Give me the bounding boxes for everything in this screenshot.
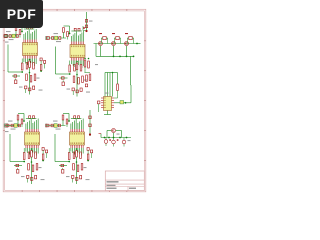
wire U5 right link xyxy=(114,102,120,104)
wire mid horizontal xyxy=(60,77,68,79)
text U5 label xyxy=(105,93,109,94)
wire right column 2 xyxy=(46,153,48,158)
diode D15 connector column xyxy=(89,116,91,119)
junction below pins xyxy=(31,148,33,150)
junction mid-right column xyxy=(84,58,86,60)
resistor R2c loop xyxy=(69,65,71,72)
chain bus left riser xyxy=(95,44,97,57)
junction output bus 5 xyxy=(126,137,128,139)
wire input loop left drop xyxy=(17,120,19,126)
resistor R5d mid-right column lower xyxy=(89,74,91,81)
wire left loop vertical xyxy=(55,47,57,75)
junction left loop xyxy=(68,161,70,163)
connector pad J2 xyxy=(46,37,48,40)
title block row line 2 xyxy=(105,183,144,185)
junction bus 4 xyxy=(133,56,135,58)
IC U2 top pins xyxy=(70,42,72,45)
capacitor C4e input chain xyxy=(58,124,60,127)
IC U5 pin marks xyxy=(104,97,106,100)
transistor Q3 body xyxy=(125,42,129,46)
junction right column xyxy=(42,160,44,162)
wire mid-right riser xyxy=(130,56,132,85)
wire center vertical xyxy=(29,68,31,95)
wire bottom stub xyxy=(72,91,74,95)
wire Q4 drop xyxy=(113,133,115,138)
wire left loop vertical xyxy=(9,134,11,162)
resistor R3h lower xyxy=(28,164,30,171)
wires from U2 top pins xyxy=(70,36,72,42)
resistor R3j lower xyxy=(36,164,38,171)
resistor R1i lower xyxy=(30,76,32,83)
wire right column xyxy=(40,61,42,65)
IC U1 top pins xyxy=(23,40,25,43)
junction left loop xyxy=(69,73,71,75)
resistor R1g right column xyxy=(40,65,42,71)
resistor R1b vertical by chain xyxy=(19,30,21,35)
wire input loop right xyxy=(23,114,25,122)
text label block 4 input xyxy=(53,121,58,122)
capacitor C3i bottom xyxy=(31,178,33,181)
audio jack symbol M1 xyxy=(5,34,8,37)
wire stub below Q7 xyxy=(123,144,125,147)
wires from U1 top pins xyxy=(23,34,25,40)
wire mid horizontal xyxy=(14,165,22,167)
wire harness 1 xyxy=(104,73,106,97)
resistor R2a input loop xyxy=(63,28,65,33)
capacitor C4d input chain xyxy=(51,124,53,127)
capacitor C1a above pins xyxy=(27,26,29,29)
resistor R4i lower xyxy=(77,165,79,172)
wire mid horizontal xyxy=(59,165,67,167)
text designators block 3 xyxy=(21,176,25,177)
resistor R2h lower xyxy=(73,76,75,83)
transistor Q2 body xyxy=(112,42,116,46)
capacitor C4c input chain xyxy=(46,124,49,127)
text label block 1 chain below xyxy=(9,39,14,40)
junction output bus 2 xyxy=(108,137,110,139)
wire mid horizontal xyxy=(12,75,20,77)
wire output left tail xyxy=(100,134,102,138)
wire U5 left drop xyxy=(98,104,100,112)
title block date text xyxy=(107,188,117,189)
diode D1a xyxy=(14,75,17,77)
capacitor C4h bottom xyxy=(72,176,74,179)
junction below pins xyxy=(29,59,31,61)
frame inner border xyxy=(5,11,145,190)
capacitor C1g right column xyxy=(44,61,46,64)
wires from U2 bottom pins xyxy=(70,61,72,65)
wire Q5 stub xyxy=(105,138,107,140)
capacitor C3g right column xyxy=(46,150,48,153)
diode D2b xyxy=(62,82,64,86)
capacitor C4i bottom xyxy=(76,178,78,181)
capacitor C1f right column xyxy=(40,58,42,61)
junction below pins xyxy=(76,148,78,150)
title block row line 3 xyxy=(105,186,144,188)
IC U4 top pins xyxy=(70,129,72,132)
text label block 3 chain below xyxy=(11,129,16,130)
IC U2 pin name marks xyxy=(70,46,73,48)
wire input loop left drop xyxy=(63,33,65,39)
wire input loop top xyxy=(18,113,24,115)
wire R5e drop to U5 xyxy=(117,91,119,99)
title block outline xyxy=(105,171,144,191)
resistor R3f xyxy=(35,152,37,159)
wire right column 2 xyxy=(91,153,93,158)
wire right loop link xyxy=(130,84,133,86)
diode D4c bottom xyxy=(80,176,82,179)
capacitor C3e input chain xyxy=(18,124,20,127)
capacitor C3d input chain xyxy=(11,124,13,127)
wires from U3 top pins xyxy=(25,124,27,130)
title block document number text xyxy=(107,185,116,186)
text label block 2 chain below xyxy=(56,41,61,42)
output red marks between transistors xyxy=(109,139,111,141)
power connector hook wire xyxy=(82,26,84,31)
transistor Q1 body xyxy=(99,42,103,46)
wire harness 4 xyxy=(112,73,114,97)
junction bus 2 xyxy=(119,56,121,58)
capacitor C3h bottom xyxy=(27,176,29,179)
capacitor C2b above pins xyxy=(78,28,80,31)
resistor R1a input loop xyxy=(15,26,17,31)
transistor Q3 internal marks xyxy=(125,42,127,44)
wire chain to pin xyxy=(19,35,21,38)
wire left loop bottom xyxy=(55,161,69,163)
wire right loop vertical xyxy=(130,85,132,103)
junction center xyxy=(31,161,33,163)
text label block 2 input xyxy=(54,33,59,34)
power connector diode D9 xyxy=(85,20,87,23)
diode D4b xyxy=(62,170,64,174)
connector column wire bottom right xyxy=(89,110,91,136)
wire loop resistor drop xyxy=(21,59,23,64)
junction center xyxy=(76,161,78,163)
resistor R4b vertical by chain xyxy=(66,119,68,124)
feedback diode D13 xyxy=(129,37,132,40)
capacitor C5b left of U5 xyxy=(98,101,100,104)
wire output top drops xyxy=(106,131,108,138)
junction input loop xyxy=(68,120,70,122)
frame column tick marks bottom xyxy=(21,190,23,192)
junction output bus 3 xyxy=(113,137,115,139)
wire left loop bottom xyxy=(10,161,24,163)
transistor chain main wire xyxy=(94,43,138,45)
chain bottom bus wire xyxy=(96,55,134,57)
wire chain to pin xyxy=(21,124,23,127)
junction output bus 1 xyxy=(104,137,106,139)
wire input loop top xyxy=(63,113,69,115)
wire diode drop xyxy=(17,168,19,170)
wire chain right tail xyxy=(137,43,141,45)
wire input loop right xyxy=(68,114,70,122)
crystal Y4 xyxy=(54,124,57,128)
resistor R2j lower xyxy=(82,76,84,83)
title block TITLE text xyxy=(107,181,119,182)
wire input loop top xyxy=(16,23,22,25)
wire input chain xyxy=(5,35,19,37)
resistor R4d xyxy=(73,152,75,159)
frame column tick marks top xyxy=(21,9,23,11)
capacitor C4b above pins xyxy=(78,116,80,119)
output block top transistor Q4 xyxy=(112,129,116,133)
junction left loop xyxy=(23,161,25,163)
text label block 4 chain below xyxy=(56,129,61,130)
wire loop resistor drop xyxy=(68,148,70,153)
resistor R1h lower xyxy=(26,74,28,81)
wire right column xyxy=(42,150,44,154)
junction center xyxy=(29,72,31,74)
resistor R3d xyxy=(28,152,30,159)
power connector hook pad xyxy=(83,27,85,29)
power connector diode D10 xyxy=(85,25,87,28)
text M2 label xyxy=(5,131,9,132)
wire input loop top xyxy=(64,25,70,27)
frame row tick marks right xyxy=(144,40,146,42)
wire mid-right cross xyxy=(85,72,91,74)
transistor Q1 collector drop xyxy=(100,46,102,57)
junction right column xyxy=(87,160,89,162)
wire below U5 horizontal xyxy=(104,114,111,116)
IC U1 pin name marks xyxy=(23,44,26,46)
crystal Y3 xyxy=(14,124,17,128)
wire center vertical xyxy=(76,157,78,184)
text mid-right xyxy=(95,64,98,65)
capacitor C2i bottom xyxy=(76,90,78,93)
junction harness xyxy=(112,72,114,74)
wire below U5 xyxy=(107,111,109,115)
PDF badge overlay xyxy=(0,0,43,28)
IC U4 pin name marks xyxy=(70,133,73,135)
wire input loop left drop xyxy=(15,31,17,37)
wire left loop bottom xyxy=(8,71,22,73)
transistor Q2 internal marks xyxy=(112,42,114,44)
wire input loop right xyxy=(21,24,23,32)
text designators block 4 xyxy=(66,176,70,177)
resistor R4h lower xyxy=(73,164,75,171)
IC U5 right pins xyxy=(112,97,115,99)
resistor R4f xyxy=(80,152,82,159)
resistor R1d xyxy=(26,63,28,70)
connector pad bottom right column xyxy=(89,133,91,135)
wire Y5 to loop xyxy=(124,102,131,104)
wire output top left xyxy=(107,130,111,132)
resistor R5a mid-right column xyxy=(84,60,86,67)
wire Q7 stub xyxy=(123,138,125,141)
resistor R4e xyxy=(76,151,78,158)
output bus wire xyxy=(101,137,131,139)
wire center vertical xyxy=(31,157,33,184)
diode D16 connector column xyxy=(89,124,91,127)
wire input loop left drop xyxy=(62,120,64,126)
crystal Y2 xyxy=(55,36,58,40)
IC U5 body xyxy=(104,97,112,111)
wire diode drop xyxy=(15,78,17,80)
transistor Q3 collector drop xyxy=(126,46,128,57)
capacitor C1d input chain xyxy=(9,35,11,38)
power connector label text xyxy=(89,21,93,22)
connector pad J3 xyxy=(4,124,6,127)
wire harness 3 xyxy=(109,73,111,97)
text output labels xyxy=(117,134,120,135)
capacitor C3b above pins xyxy=(33,116,35,119)
resistor R3a input loop xyxy=(17,115,19,120)
capacitor C3c input chain xyxy=(6,124,9,127)
junction right column xyxy=(40,70,42,72)
diode D3b xyxy=(17,170,19,174)
feedback diode D12 xyxy=(116,37,119,40)
crystal Y5 right of U5 xyxy=(120,101,124,104)
junction bus 1 xyxy=(113,56,115,58)
IC U1 body xyxy=(23,43,38,56)
IC U2 body xyxy=(70,45,85,58)
diode D4a xyxy=(61,164,64,166)
wire loop resistor drop xyxy=(69,61,71,66)
transistor chain top marks xyxy=(99,33,102,34)
IC U3 pin name marks xyxy=(25,133,28,135)
wire diode drop xyxy=(62,80,64,82)
wire Q6 stub xyxy=(113,138,115,141)
resistor R2i lower xyxy=(78,78,80,85)
wire right column 2 xyxy=(44,63,46,68)
capacitor C2d input chain xyxy=(52,37,54,40)
wire bottom stub xyxy=(72,178,74,182)
frame outer border xyxy=(3,9,146,192)
resistor R4c loop xyxy=(68,153,70,160)
power connector pad xyxy=(85,30,87,32)
output Q4 marks xyxy=(112,129,114,131)
IC U1 bottom pins xyxy=(23,56,25,59)
resistor R1e xyxy=(29,61,31,68)
wire center vertical xyxy=(76,70,78,97)
diode D3c bottom xyxy=(35,176,37,179)
capacitor C1h bottom xyxy=(25,86,27,89)
IC U5 left pins xyxy=(101,97,104,99)
wire top bus xyxy=(24,28,35,30)
wire left loop vertical xyxy=(54,134,56,162)
wires from U1 bottom pins xyxy=(23,59,25,63)
text label block 3 input xyxy=(8,121,13,122)
diode D1b xyxy=(15,80,17,84)
junction center xyxy=(76,74,78,76)
diode D1c bottom xyxy=(33,86,35,89)
capacitor C2h bottom xyxy=(72,88,74,91)
junction left loop xyxy=(21,71,23,73)
text designators block 1 xyxy=(19,87,23,88)
capacitor C1b above pins xyxy=(31,26,33,29)
capacitor C1c input chain xyxy=(4,35,7,38)
junction input loop xyxy=(69,33,71,35)
wire chain to pin xyxy=(67,37,69,40)
resistor R3b vertical by chain xyxy=(21,119,23,124)
capacitor C3a above pins xyxy=(29,116,31,119)
feedback diode D13 wires xyxy=(127,37,129,39)
crystal Y1 xyxy=(12,34,15,38)
title block row line 1 xyxy=(105,179,144,181)
resistor R3c loop xyxy=(23,153,25,160)
wire bottom stub xyxy=(25,89,27,93)
output transistor Q5 xyxy=(104,140,108,144)
wire mid-right column stub xyxy=(84,67,86,73)
diode D2c bottom xyxy=(80,88,82,91)
capacitor C1i bottom xyxy=(29,88,31,91)
capacitor C2a above pins xyxy=(74,28,76,31)
resistor R4j lower xyxy=(81,164,83,171)
wire top bus xyxy=(71,30,82,32)
resistor R1j lower xyxy=(34,74,36,81)
text label block 1 input xyxy=(6,31,11,32)
transistor Q2 collector drop xyxy=(113,46,115,57)
IC U3 bottom pins xyxy=(25,145,27,148)
wire loop resistor drop xyxy=(23,148,25,153)
capacitor C4f right column xyxy=(87,148,89,151)
wire output top right xyxy=(116,130,122,132)
wire harness right drop xyxy=(117,73,119,85)
capacitor C4a above pins xyxy=(74,116,76,119)
feedback diode D11 xyxy=(103,37,106,40)
resistor R2d xyxy=(74,65,76,72)
wire input chain xyxy=(46,37,66,39)
resistor R2b vertical by chain xyxy=(67,32,69,37)
wires from U4 bottom pins xyxy=(70,148,72,152)
resistor R2f xyxy=(80,65,82,72)
resistor R4g right column xyxy=(87,154,89,160)
junction chain right xyxy=(136,43,138,45)
wires from U3 bottom pins xyxy=(25,148,27,152)
capacitor C4g right column xyxy=(91,150,93,153)
output transistor Q7 xyxy=(122,140,126,144)
resistor R3i lower xyxy=(32,165,34,172)
wires from U4 top pins xyxy=(70,124,72,130)
diode D2a xyxy=(62,77,65,79)
title block sheet divider xyxy=(127,187,129,191)
text M1 label xyxy=(5,42,9,43)
junction right of Y5 xyxy=(125,102,127,104)
junction input loop xyxy=(21,31,23,33)
wire input loop right xyxy=(69,26,71,34)
resistor R4a input loop xyxy=(62,115,64,120)
wire diode drop xyxy=(62,168,64,170)
feedback diode D11 wires xyxy=(101,37,103,39)
wire harness top xyxy=(105,72,118,74)
power connector column wire xyxy=(86,12,88,32)
capacitor C5a mid-right bottom xyxy=(85,84,87,87)
IC U3 body xyxy=(25,132,40,145)
capacitor C2c input chain xyxy=(47,37,50,40)
wire left loop bottom xyxy=(56,73,70,75)
resistor R5c mid-right column lower xyxy=(86,75,88,82)
IC U3 top pins xyxy=(25,129,27,132)
wire bottom stub xyxy=(27,178,29,182)
wire harness 2 xyxy=(107,73,109,97)
resistor R5b mid-right column xyxy=(88,61,90,68)
resistor R5e above U5 xyxy=(117,84,119,91)
wire stub below Q5 xyxy=(105,144,107,147)
feedback diode D12 wires xyxy=(114,37,116,39)
wire stub below Q6 xyxy=(113,144,115,147)
frame row tick marks left xyxy=(3,40,4,42)
junction mid-right column b xyxy=(88,58,90,60)
IC U4 body xyxy=(70,132,85,145)
text designators block 2 xyxy=(67,89,71,90)
connector pad J4 xyxy=(46,124,48,127)
junction output bus 4 xyxy=(119,137,121,139)
IC U2 bottom pins xyxy=(70,58,72,61)
wire left loop vertical xyxy=(7,45,9,73)
title block sheet text xyxy=(129,188,136,189)
diode D3a xyxy=(16,164,19,166)
wire right column xyxy=(87,150,89,154)
